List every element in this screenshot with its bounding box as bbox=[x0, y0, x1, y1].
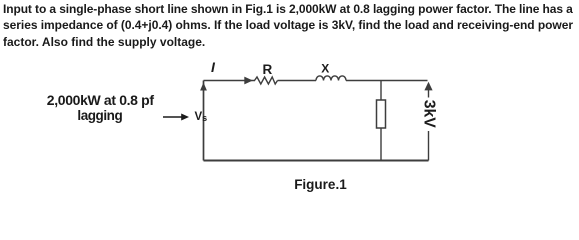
wire: between resistor and inductor bbox=[278, 80, 317, 82]
label: 2,000kW at 0.8 pf bbox=[47, 93, 154, 107]
svg-text:I: I bbox=[211, 59, 216, 75]
svg-text:Vs: Vs bbox=[195, 111, 208, 123]
problem text line 2 bbox=[3, 19, 573, 31]
wire: right voltage-arrow lower segment bbox=[428, 131, 430, 161]
inductor X coil bbox=[316, 76, 346, 81]
resistor R zigzag body bbox=[255, 77, 278, 84]
arrowhead: current I (points right) bbox=[244, 77, 253, 85]
wire: right voltage-arrow upper segment bbox=[428, 90, 430, 98]
load box bbox=[377, 100, 386, 128]
arrowhead: Vs up arrow on left wire bbox=[200, 83, 207, 91]
arrowhead: 3kV up arrow bbox=[424, 82, 432, 91]
wire: left vertical (Vs side) bbox=[203, 81, 205, 161]
wire: top from source corner to resistor bbox=[204, 80, 256, 82]
wire: load branch vertical bbox=[380, 81, 382, 161]
problem text line 1 bbox=[3, 3, 573, 15]
svg-text:3kV: 3kV bbox=[421, 100, 438, 129]
label arrow to Vs bbox=[163, 116, 184, 118]
problem text line 3 bbox=[3, 36, 205, 48]
label: lagging bbox=[77, 109, 122, 123]
caption: Figure.1 bbox=[294, 178, 347, 192]
wire: top from inductor to right end bbox=[346, 80, 428, 82]
svg-text:R: R bbox=[263, 62, 273, 77]
svg-text:X: X bbox=[321, 62, 329, 76]
wire: bottom bbox=[204, 160, 429, 162]
